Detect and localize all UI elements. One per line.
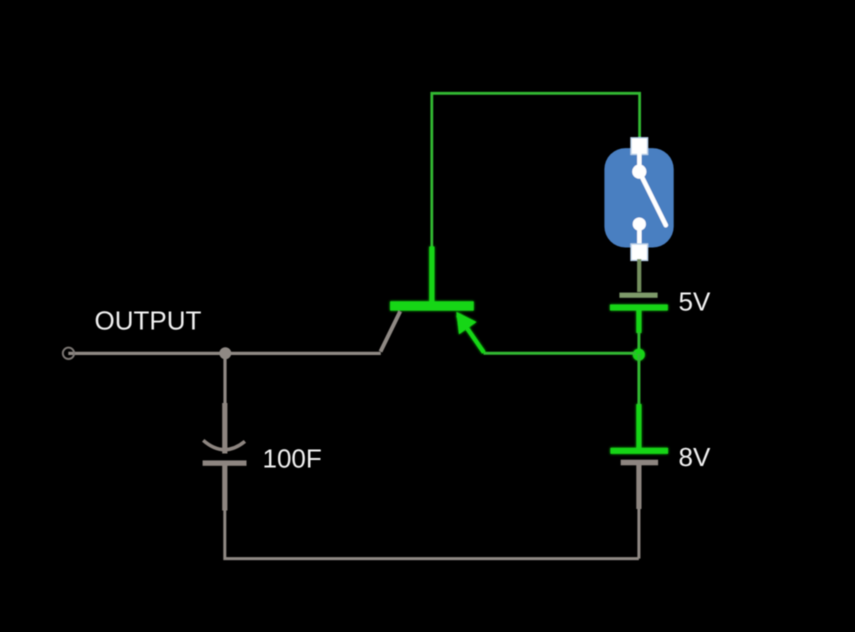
battery V1 5V long plate (bright green) [610,305,668,311]
wire: battery V1 to node A [637,332,640,355]
battery V2 bottom lead (thick gray) [636,465,641,509]
output terminal post [63,348,74,359]
switch bottom stem [637,229,642,245]
node B junction dot (gray) [219,347,231,359]
svg-text:5V: 5V [679,286,711,316]
wire: top horizontal (base loop to switch) [432,93,640,248]
svg-text:100F: 100F [263,444,322,474]
transistor Q1 base bar [390,301,474,310]
wire: output terminal to collector (gray) [68,352,381,355]
switch bottom contact circle [633,218,646,231]
switch top pivot circle [632,165,646,179]
battery V2 8V long plate (bright green) [610,448,668,454]
battery V2 top lead (bright green) [636,404,641,448]
wire: node A down to battery V2 [637,354,640,405]
transistor Q1 base lead (bright) [429,247,434,303]
node A junction dot (green) [633,349,645,361]
switch top stem [637,152,642,166]
svg-text:OUTPUT: OUTPUT [95,306,202,336]
wire: node B down to capacitor [223,353,226,404]
battery V1 lead to junction [636,310,641,333]
transistor Q1 emitter lead (green diagonal) [458,315,484,353]
svg-text:8V: 8V [679,442,711,472]
wire: bottom rail up to 8V battery [637,508,640,559]
capacitor C1 top lead (thick) [222,403,227,454]
switch bottom terminal square [631,244,648,260]
battery V2 8V short plate (gray) [621,460,658,466]
battery V1 5V short plate (sage) [619,293,657,298]
wire: switch to 5V battery (sage) [637,259,641,292]
transistor Q1 collector lead (gray diagonal) [381,311,401,351]
switch lever (open) [639,172,666,226]
capacitor C1 curved plate [203,440,245,449]
wire: node A to emitter (green) [484,352,637,355]
wire: capacitor to bottom rail [225,509,639,559]
switch top terminal square [631,138,648,155]
switch S1 body [604,148,673,247]
capacitor C1 straight plate [203,460,247,465]
capacitor C1 bottom lead (thick) [222,466,227,511]
transistor Q1 emitter arrow [456,312,476,335]
